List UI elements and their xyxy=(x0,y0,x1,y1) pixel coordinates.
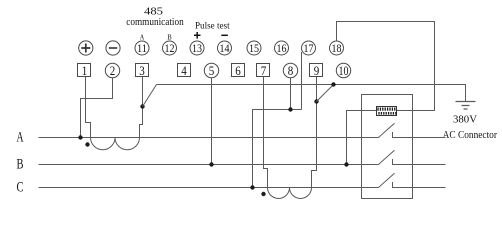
wire coil C to terminal 9 xyxy=(312,77,317,188)
svg-text:2: 2 xyxy=(110,63,116,78)
svg-text:9: 9 xyxy=(314,63,320,78)
svg-text:A: A xyxy=(140,33,145,42)
terminal 14 xyxy=(218,41,232,55)
terminal 5 xyxy=(204,63,218,77)
label - above terminal 14 xyxy=(221,34,228,36)
wire ground bus xyxy=(157,85,466,102)
wire terminal 2 to line A tap xyxy=(81,78,113,138)
wire terminal 18 loop to connector xyxy=(337,22,435,111)
node terminal 8 junction xyxy=(288,107,292,111)
terminal 3 xyxy=(136,64,149,77)
terminal + xyxy=(79,41,93,55)
terminal 10 xyxy=(336,63,350,77)
svg-text:16: 16 xyxy=(277,41,287,55)
svg-text:12: 12 xyxy=(165,41,175,55)
svg-text:485: 485 xyxy=(144,7,163,18)
svg-text:AC Connector: AC Connector xyxy=(443,130,498,141)
node ground bus junction xyxy=(331,82,335,86)
terminal - xyxy=(106,41,120,55)
svg-text:14: 14 xyxy=(220,41,230,55)
switch phase B xyxy=(379,150,446,164)
wire terminal 17 drop xyxy=(301,52,303,110)
wire line A xyxy=(39,137,379,139)
svg-text:15: 15 xyxy=(249,41,259,55)
wire coil A to terminal 3 xyxy=(140,77,143,138)
switch phase A xyxy=(379,123,446,137)
terminal 12 xyxy=(163,41,177,55)
terminal 2 xyxy=(105,63,119,77)
wire diagonal junction 9 to ground bus xyxy=(317,85,334,102)
terminal 9 xyxy=(310,64,323,77)
terminal 4 xyxy=(178,64,191,77)
svg-text:Pulse test: Pulse test xyxy=(195,22,230,32)
terminal 6 xyxy=(232,64,245,77)
wire line B xyxy=(39,164,379,166)
node coil C polarity dot xyxy=(261,192,265,196)
svg-text:4: 4 xyxy=(181,63,187,78)
ground symbol xyxy=(456,102,476,110)
node line A voltage tap xyxy=(78,135,82,139)
coil C bumps under line C xyxy=(268,188,312,199)
wire line C xyxy=(39,187,379,189)
AC connector box xyxy=(362,95,413,199)
terminal 15 xyxy=(247,41,261,55)
svg-text:3: 3 xyxy=(139,63,145,78)
node line B riser junction xyxy=(344,162,348,166)
label + above terminal 13 xyxy=(194,32,201,39)
terminal 11 xyxy=(135,41,149,55)
svg-text:11: 11 xyxy=(137,41,147,55)
node terminal 3 junction xyxy=(140,104,144,108)
svg-text:13: 13 xyxy=(192,41,202,55)
connector terminal block xyxy=(377,107,397,116)
switch phase C xyxy=(379,173,446,187)
wire tap bus to line C xyxy=(253,110,302,188)
svg-text:C: C xyxy=(17,180,24,196)
wire terminal 5 to line B xyxy=(211,78,213,165)
svg-text:8: 8 xyxy=(288,63,294,78)
svg-text:380V: 380V xyxy=(453,115,477,126)
node terminal 9 junction xyxy=(314,99,318,103)
terminal 13 xyxy=(190,41,204,55)
node line B tap xyxy=(209,162,213,166)
svg-text:communication: communication xyxy=(126,17,184,28)
coil A bumps under line A xyxy=(91,138,140,150)
wire terminal 8 drop xyxy=(290,78,292,110)
wire terminal 1 to coil A xyxy=(86,77,91,138)
svg-text:7: 7 xyxy=(261,63,267,78)
terminal 16 xyxy=(275,41,289,55)
terminal 7 xyxy=(257,64,270,77)
svg-text:B: B xyxy=(17,157,24,173)
svg-text:18: 18 xyxy=(332,41,342,55)
label 485 communication xyxy=(126,7,184,29)
svg-text:B: B xyxy=(167,33,172,42)
terminal 18 xyxy=(330,41,344,55)
wire diagonal junction 3 to ground bus xyxy=(143,85,157,107)
node line C tap xyxy=(250,185,254,189)
svg-text:6: 6 xyxy=(235,63,241,78)
svg-text:10: 10 xyxy=(339,63,349,78)
svg-text:5: 5 xyxy=(209,63,215,78)
terminal 8 xyxy=(283,63,297,77)
svg-text:A: A xyxy=(17,130,24,146)
terminal 17 xyxy=(302,41,316,55)
wire line B riser to connector block xyxy=(347,111,377,165)
svg-text:17: 17 xyxy=(304,41,314,55)
svg-text:1: 1 xyxy=(82,63,88,78)
wire terminal 7 to coil C xyxy=(264,77,268,188)
terminal 1 xyxy=(78,64,91,77)
node coil A polarity dot xyxy=(85,142,89,146)
